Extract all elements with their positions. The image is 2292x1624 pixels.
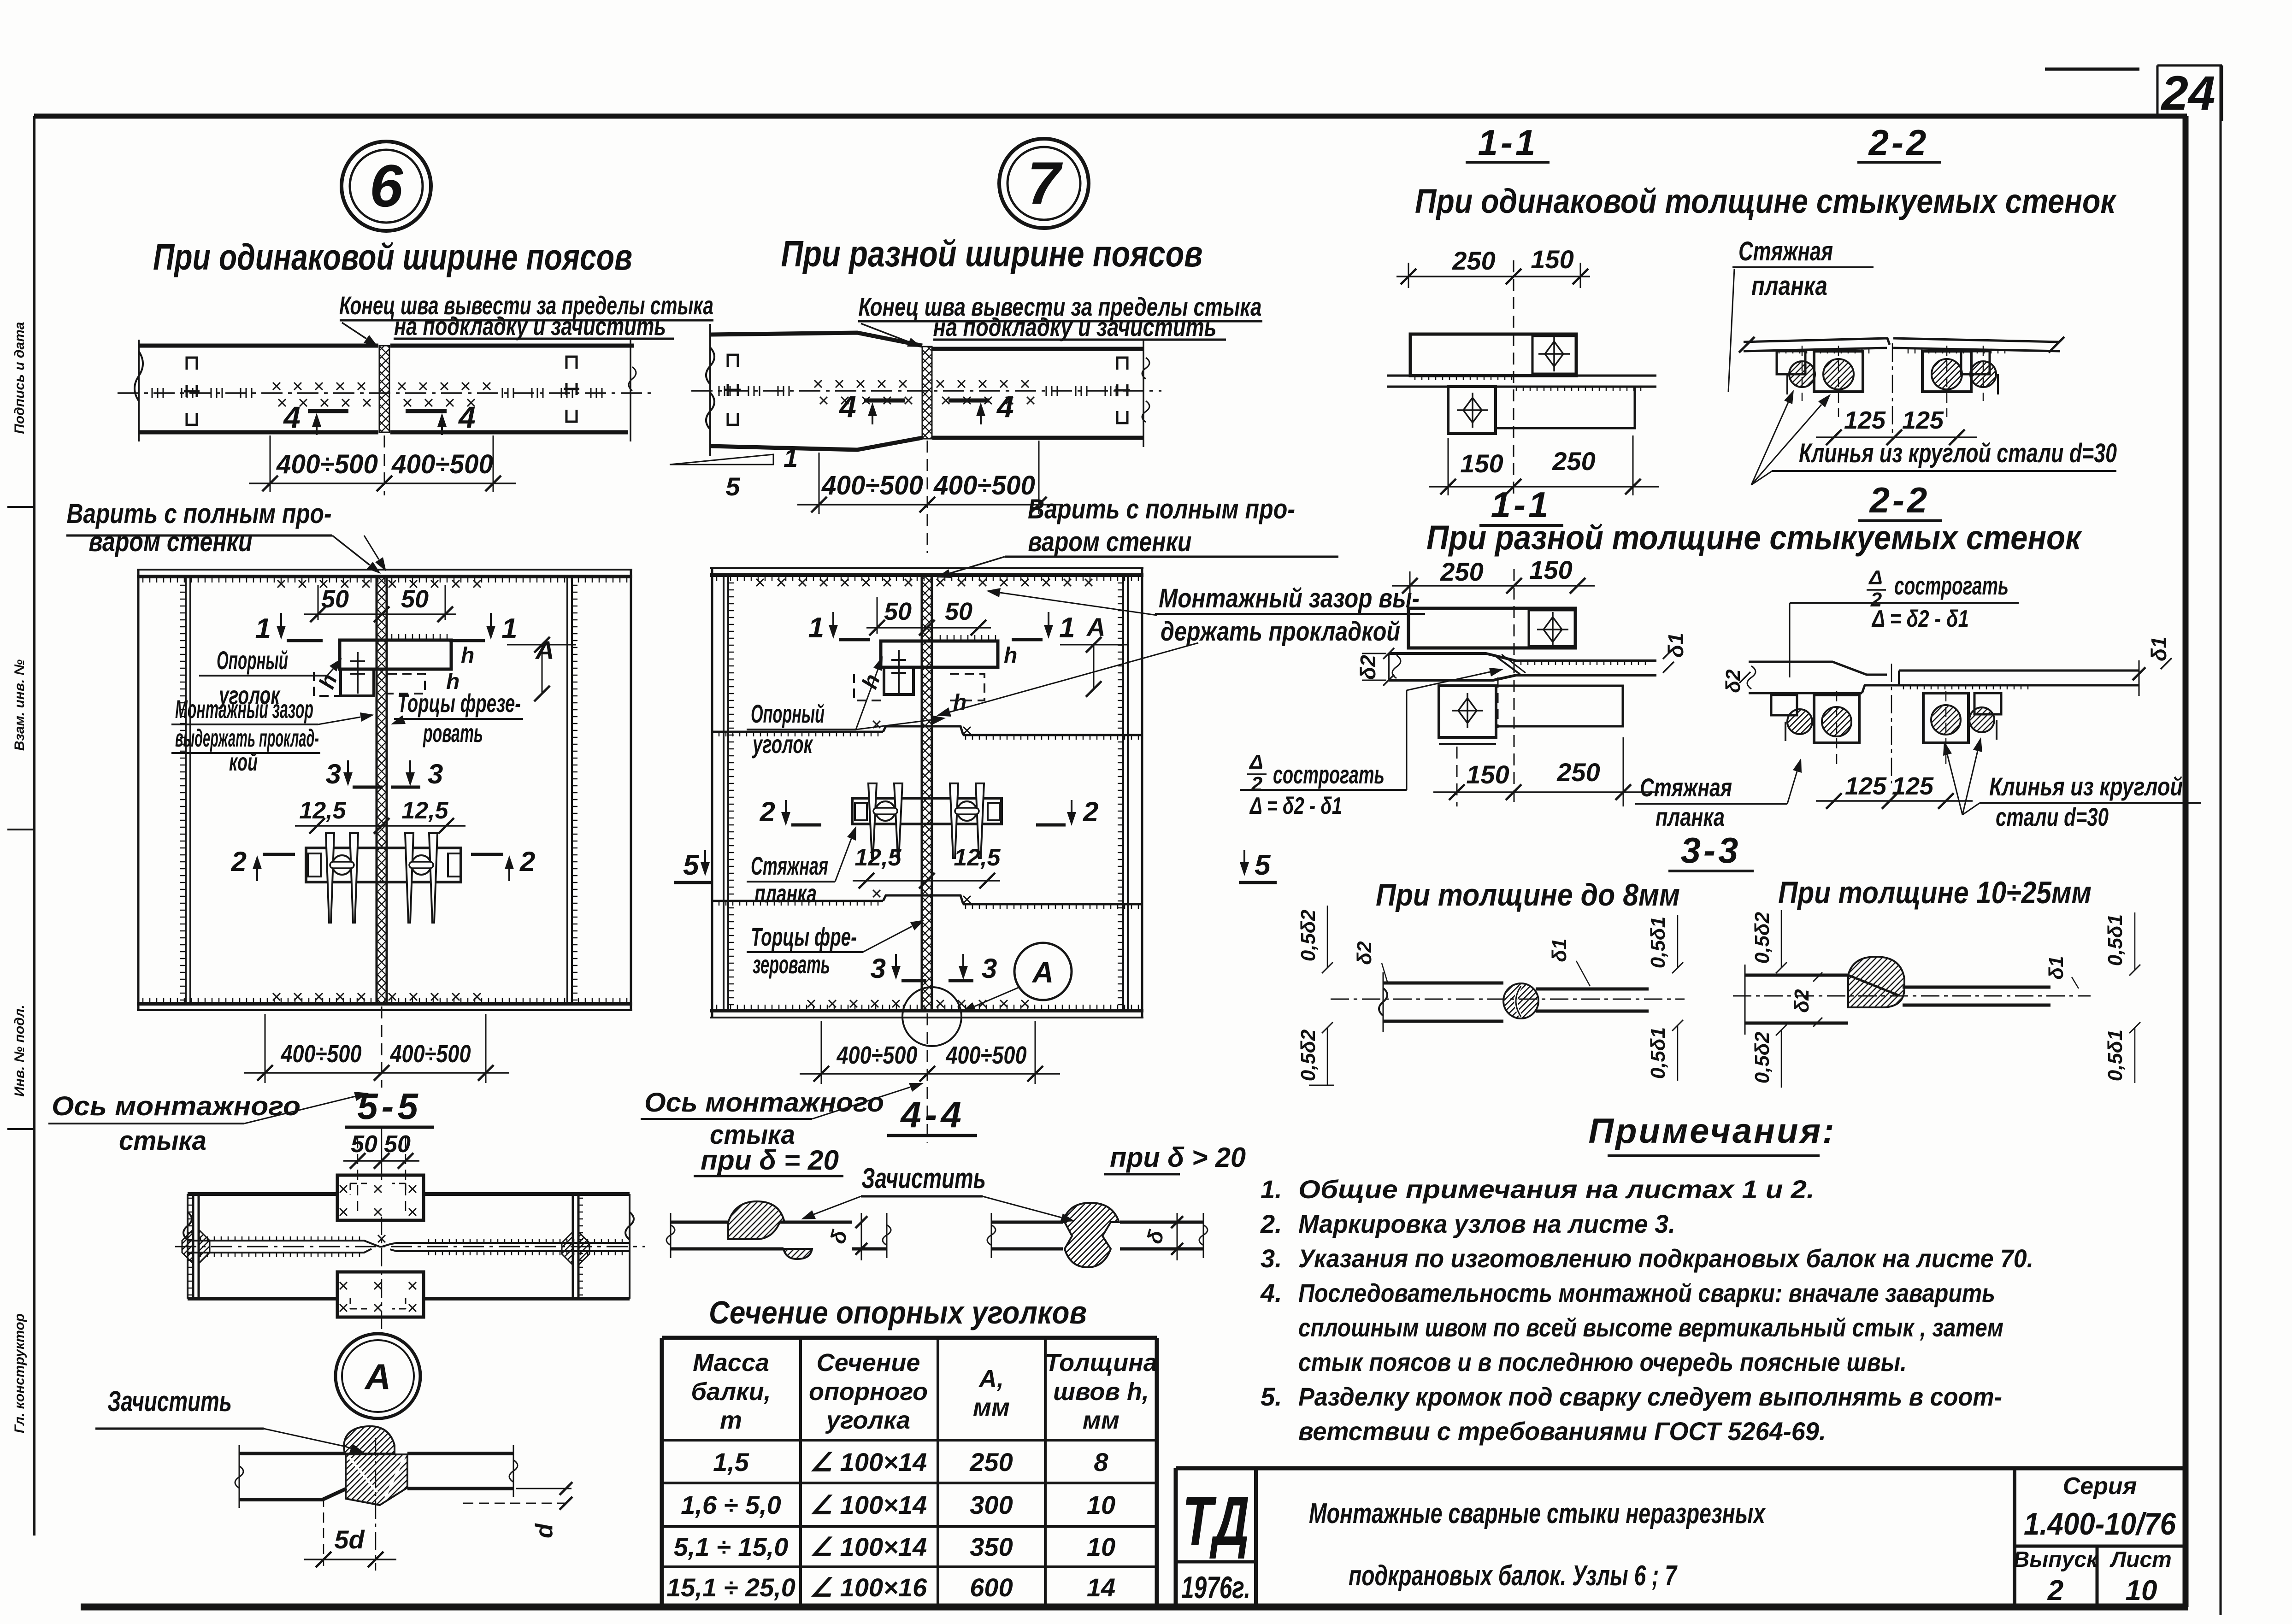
svg-text:12,5: 12,5 [954, 844, 1001, 871]
svg-text:держать прокладкой: держать прокладкой [1161, 617, 1400, 647]
svg-text:4: 4 [996, 389, 1014, 424]
svg-text:0,5δ2: 0,5δ2 [1297, 1029, 1320, 1081]
svg-text:Торцы фре-: Торцы фре- [751, 922, 857, 951]
svg-text:3: 3 [871, 953, 886, 984]
3-3 left drawing [1383, 982, 1503, 985]
svg-text:250: 250 [969, 1447, 1013, 1477]
node 7 detail circle A [902, 987, 961, 1046]
svg-text:А,: А, [978, 1365, 1004, 1393]
svg-text:Стяжная: Стяжная [1738, 236, 1833, 266]
svg-text:250: 250 [1440, 557, 1483, 586]
svg-text:1: 1 [1059, 612, 1075, 644]
svg-text:сострогать: сострогать [1273, 760, 1385, 789]
svg-text:400÷500: 400÷500 [391, 449, 493, 479]
5-5 stiffeners [192, 1194, 194, 1299]
svg-text:h: h [461, 643, 474, 668]
svg-text:А: А [1031, 956, 1054, 989]
svg-text:1976г.: 1976г. [1181, 1570, 1250, 1605]
svg-text:10: 10 [1087, 1490, 1115, 1519]
svg-text:δ2: δ2 [1356, 655, 1380, 680]
node 6 beam top view [139, 344, 378, 348]
svg-text:∠ 100×14: ∠ 100×14 [810, 1490, 927, 1519]
node 7 marker circle [999, 139, 1089, 228]
5-5 bottom splice plate [337, 1272, 424, 1317]
svg-text:При толщине 10÷25мм: При толщине 10÷25мм [1778, 875, 2092, 910]
svg-text:Указания по изготовлению подкр: Указания по изготовлению подкрановых бал… [1298, 1244, 2033, 1273]
svg-text:Разделку кромок под сварку сле: Разделку кромок под сварку следует выпол… [1298, 1382, 2002, 1411]
sect mark 5 right [1243, 850, 1245, 862]
node 6 weld flags 4 [308, 409, 348, 413]
svg-text:1.400-10/76: 1.400-10/76 [2024, 1506, 2176, 1542]
svg-text:кой: кой [229, 748, 258, 776]
3-3 right drawing [1745, 974, 1848, 977]
svg-text:5: 5 [1255, 849, 1271, 881]
svg-text:планка: планка [1751, 271, 1827, 301]
svg-text:δ1: δ1 [2147, 636, 2171, 661]
svg-text:Δ = δ2 - δ1: Δ = δ2 - δ1 [1871, 606, 1969, 632]
svg-text:на подкладку и зачистить: на подкладку и зачистить [933, 312, 1217, 341]
svg-text:∠ 100×14: ∠ 100×14 [810, 1447, 927, 1477]
node 6 elevation panel [137, 569, 632, 571]
svg-text:600: 600 [970, 1573, 1013, 1602]
node 7 right stiffener [1122, 575, 1124, 1011]
svg-text:δ2: δ2 [1791, 989, 1813, 1013]
svg-text:10: 10 [1087, 1532, 1115, 1561]
node 7 tie plate [852, 798, 1002, 824]
svg-text:Монтажный зазор: Монтажный зазор [175, 694, 313, 724]
svg-text:При одинаковой ширине поясов: При одинаковой ширине поясов [153, 236, 632, 277]
page frame [33, 116, 35, 1536]
node 6 weld joint strip [379, 346, 389, 432]
svg-text:1-1: 1-1 [1478, 122, 1538, 163]
svg-text:подкрановых балок. Узлы 6 ; 7: подкрановых балок. Узлы 6 ; 7 [1349, 1560, 1678, 1592]
svg-text:Клинья из круглой стали d=30: Клинья из круглой стали d=30 [1799, 438, 2117, 468]
5-5 top splice plate [337, 1175, 424, 1220]
svg-text:варом стенки: варом стенки [89, 526, 253, 557]
svg-text:300: 300 [970, 1490, 1013, 1519]
svg-text:50: 50 [321, 585, 349, 613]
svg-text:мм: мм [1083, 1406, 1119, 1434]
svg-text:5: 5 [725, 472, 740, 501]
sect 2-2 same clamps and wedges [1777, 351, 1805, 374]
svg-text:150: 150 [1466, 760, 1509, 789]
svg-text:2: 2 [231, 846, 247, 877]
svg-text:Монтажные сварные стыки неразр: Монтажные сварные стыки неразрезных [1309, 1498, 1766, 1530]
svg-text:δ2: δ2 [1353, 941, 1376, 965]
svg-text:400÷500: 400÷500 [837, 1041, 918, 1069]
svg-text:т: т [720, 1406, 742, 1434]
svg-text:1,5: 1,5 [713, 1447, 749, 1477]
svg-text:планка: планка [754, 879, 817, 908]
svg-text:12,5: 12,5 [854, 844, 901, 871]
svg-text:Варить с полным про-: Варить с полным про- [1028, 494, 1295, 524]
svg-text:При толщине до 8мм: При толщине до 8мм [1376, 877, 1680, 912]
svg-text:2: 2 [1251, 773, 1263, 795]
svg-text:стыка: стыка [119, 1126, 206, 1156]
table frame [660, 1338, 664, 1607]
node 7 elevation joint [921, 575, 923, 1011]
node 6 centerline [118, 392, 654, 394]
svg-text:∠ 100×16: ∠ 100×16 [810, 1573, 927, 1602]
svg-text:8: 8 [1094, 1447, 1108, 1477]
svg-text:3: 3 [428, 759, 443, 789]
svg-text:Δ = δ2 - δ1: Δ = δ2 - δ1 [1249, 793, 1342, 819]
node 7 support angle [881, 641, 998, 667]
svg-text:50: 50 [945, 598, 972, 625]
node 6 tie plate [306, 848, 461, 882]
svg-text:d: d [531, 1523, 558, 1538]
node 7 bottom dim 400-500 [821, 1021, 822, 1084]
sect 2-2 diff drawing [1749, 662, 1887, 675]
node 6 support angle [340, 640, 451, 669]
4-4 right weld drawing [991, 1221, 1063, 1224]
svg-text:При разной ширине поясов: При разной ширине поясов [781, 233, 1203, 274]
svg-text:балки,: балки, [691, 1378, 771, 1406]
svg-text:Примечания:: Примечания: [1588, 1112, 1836, 1151]
svg-text:10: 10 [2126, 1575, 2157, 1606]
svg-text:1: 1 [808, 612, 824, 644]
svg-text:при δ = 20: при δ = 20 [701, 1145, 839, 1176]
svg-text:∠ 100×14: ∠ 100×14 [810, 1532, 927, 1561]
svg-text:Маркировка узлов на листе 3.: Маркировка узлов на листе 3. [1298, 1209, 1675, 1238]
svg-text:швов h,: швов h, [1053, 1378, 1149, 1406]
svg-text:5d: 5d [334, 1525, 365, 1554]
node 7 stitch symbols [725, 355, 741, 425]
node 7 weld flags 4 [864, 399, 905, 403]
svg-text:15,1 ÷ 25,0: 15,1 ÷ 25,0 [666, 1573, 795, 1602]
node 7 horizontal seam lower [712, 900, 883, 902]
svg-text:125: 125 [1845, 772, 1887, 800]
svg-text:зеровать: зеровать [753, 950, 830, 979]
node 7 beam top view tapered [710, 333, 922, 346]
svg-text:При разной толщине стыкуемых с: При разной толщине стыкуемых стенок [1426, 518, 2082, 557]
svg-text:Ось монтажного: Ось монтажного [644, 1088, 884, 1118]
svg-text:400÷500: 400÷500 [933, 471, 1035, 500]
sect 1-1 diff drawing [1408, 608, 1575, 648]
svg-text:5-5: 5-5 [357, 1086, 422, 1127]
svg-text:стали d=30: стали d=30 [1996, 802, 2109, 831]
svg-text:400÷500: 400÷500 [946, 1041, 1027, 1069]
svg-text:Сечение: Сечение [817, 1349, 920, 1377]
svg-text:50: 50 [884, 598, 912, 625]
svg-text:0,5δ2: 0,5δ2 [1751, 912, 1774, 964]
node 6 stitch symbols [184, 358, 200, 425]
sect 2-2 diff clamps [1771, 695, 1797, 715]
node 7 centerline [691, 390, 1161, 392]
svg-text:Гл. конструктор: Гл. конструктор [12, 1313, 27, 1433]
svg-text:Опорный: Опорный [217, 646, 288, 675]
svg-text:Опорный: Опорный [751, 699, 825, 728]
svg-text:2: 2 [760, 796, 775, 827]
svg-text:0,5δ1: 0,5δ1 [1647, 917, 1669, 969]
svg-text:400÷500: 400÷500 [276, 449, 378, 479]
svg-text:1,6 ÷ 5,0: 1,6 ÷ 5,0 [681, 1490, 781, 1519]
node 7 slope triangle 1:5 [670, 454, 773, 465]
5-5 breaks and axis [183, 1212, 192, 1240]
svg-text:Δ: Δ [1249, 751, 1263, 773]
svg-text:4: 4 [283, 400, 300, 434]
svg-text:400÷500: 400÷500 [821, 471, 923, 500]
node 6 bottom dim 400-500 [265, 1014, 266, 1083]
5-5 web strip [188, 1241, 381, 1247]
svg-text:δ2: δ2 [1722, 669, 1744, 693]
svg-text:1: 1 [501, 613, 517, 645]
svg-text:350: 350 [970, 1532, 1013, 1561]
svg-text:2-2: 2-2 [1869, 480, 1930, 520]
svg-text:0,5δ2: 0,5δ2 [1297, 909, 1320, 961]
svg-text:Серия: Серия [2063, 1473, 2137, 1500]
svg-text:6: 6 [370, 152, 403, 219]
svg-text:Зачистить: Зачистить [107, 1386, 232, 1418]
svg-text:Масса: Масса [693, 1349, 769, 1377]
page number box 24 [2156, 65, 2159, 118]
node 7 left stiffener [723, 575, 725, 1011]
sect 2-2 same drawing flange [1744, 338, 1890, 345]
svg-text:250: 250 [1452, 246, 1495, 275]
svg-text:δ1: δ1 [1548, 938, 1571, 962]
svg-text:4-4: 4-4 [900, 1094, 965, 1135]
svg-text:Взам. инв. №: Взам. инв. № [12, 659, 27, 751]
svg-text:1: 1 [255, 613, 271, 645]
svg-text:сострогать: сострогать [1894, 571, 2009, 600]
svg-text:выдержать проклад-: выдержать проклад- [175, 724, 319, 752]
svg-text:Выпуск: Выпуск [2014, 1548, 2099, 1572]
svg-text:уголка: уголка [825, 1406, 910, 1434]
svg-text:24: 24 [2161, 66, 2215, 120]
svg-text:Подпись и дата: Подпись и дата [12, 322, 27, 434]
d dimension right [516, 1488, 572, 1489]
4-4 left weld drawing [671, 1221, 728, 1224]
svg-text:сплошным швом по всей высоте в: сплошным швом по всей высоте вертикальны… [1298, 1313, 2003, 1342]
svg-text:400÷500: 400÷500 [390, 1040, 471, 1068]
svg-text:0,5δ1: 0,5δ1 [1647, 1027, 1669, 1079]
svg-text:Общие примечания на листах 1 и: Общие примечания на листах 1 и 2. [1298, 1175, 1815, 1204]
svg-text:14: 14 [1087, 1573, 1115, 1602]
svg-text:1: 1 [784, 443, 798, 472]
5d dimension [323, 1497, 324, 1566]
title block frame [1176, 1466, 2186, 1471]
svg-text:Клинья из круглой: Клинья из круглой [1989, 772, 2183, 801]
svg-text:0,5δ1: 0,5δ1 [2104, 914, 2127, 966]
svg-text:При одинаковой толщине стыкуем: При одинаковой толщине стыкуемых стенок [1415, 182, 2117, 220]
svg-text:Толщина: Толщина [1045, 1349, 1157, 1377]
svg-text:уголок: уголок [752, 730, 813, 759]
svg-text:Зачистить: Зачистить [861, 1163, 986, 1194]
svg-text:Сечение опорных уголков: Сечение опорных уголков [709, 1294, 1087, 1330]
svg-text:1.: 1. [1261, 1175, 1282, 1204]
svg-text:Стяжная: Стяжная [1640, 773, 1732, 802]
svg-text:Инв. № подл.: Инв. № подл. [12, 1005, 27, 1096]
svg-text:5: 5 [683, 849, 700, 881]
svg-text:7: 7 [1027, 149, 1063, 217]
svg-text:ТД: ТД [1182, 1482, 1249, 1559]
svg-text:ветствии с требованиями ГОСТ 5: ветствии с требованиями ГОСТ 5264-69. [1298, 1417, 1826, 1446]
svg-text:4: 4 [838, 389, 856, 424]
svg-text:Ось монтажного: Ось монтажного [52, 1091, 300, 1121]
svg-text:2: 2 [519, 846, 535, 877]
node 6 dimension 400-500 [270, 435, 271, 492]
svg-text:Стяжная: Стяжная [751, 851, 828, 880]
node 7 weld joint strip [922, 347, 932, 439]
5-5 drawing [188, 1192, 337, 1196]
node 7 elevation panel [710, 567, 1143, 569]
svg-text:4.: 4. [1260, 1278, 1282, 1307]
node 6 elevation joint [376, 577, 378, 1004]
svg-text:Монтажный зазор вы-: Монтажный зазор вы- [1159, 583, 1420, 613]
svg-text:4: 4 [458, 400, 476, 434]
svg-text:5.: 5. [1261, 1382, 1282, 1411]
node 6 marker circle [342, 141, 431, 231]
svg-text:3.: 3. [1261, 1244, 1282, 1273]
svg-text:варом стенки: варом стенки [1028, 526, 1192, 557]
svg-text:12,5: 12,5 [401, 797, 448, 824]
svg-text:150: 150 [1529, 555, 1572, 584]
svg-text:0,5δ2: 0,5δ2 [1751, 1031, 1774, 1083]
svg-text:планка: планка [1656, 802, 1725, 831]
svg-text:3: 3 [326, 759, 341, 789]
A detail weld drawing [239, 1452, 345, 1455]
svg-text:при δ > 20: при δ > 20 [1110, 1142, 1246, 1173]
svg-text:стык поясов и в последнюю очер: стык поясов и в последнюю очередь поясны… [1298, 1347, 1907, 1377]
svg-text:А: А [364, 1356, 391, 1397]
svg-text:Лист: Лист [2109, 1548, 2172, 1572]
svg-text:Торцы фрезе-: Торцы фрезе- [397, 688, 521, 718]
node 7 dimension 400-500 [819, 453, 820, 514]
svg-text:0,5δ1: 0,5δ1 [2104, 1030, 2127, 1082]
svg-text:150: 150 [1531, 245, 1573, 274]
svg-text:2: 2 [2047, 1575, 2063, 1606]
svg-text:ровать: ровать [423, 718, 483, 747]
svg-text:δ1: δ1 [2045, 956, 2068, 979]
svg-text:h: h [1004, 643, 1017, 668]
svg-text:150: 150 [1460, 449, 1503, 478]
svg-text:3: 3 [982, 953, 997, 984]
svg-text:А: А [1086, 612, 1105, 641]
svg-text:50: 50 [401, 585, 429, 613]
svg-text:Последовательность монтажной с: Последовательность монтажной сварки: вна… [1298, 1278, 1995, 1307]
sect 1-1 same drawing [1410, 334, 1576, 376]
svg-text:мм: мм [973, 1394, 1010, 1421]
svg-text:на подкладку и зачистить: на подкладку и зачистить [394, 312, 666, 341]
svg-text:250: 250 [1556, 758, 1600, 787]
svg-text:125: 125 [1902, 406, 1944, 434]
node 7 horizontal seam upper [712, 731, 883, 733]
svg-text:Δ: Δ [1868, 566, 1883, 589]
svg-text:Варить с полным про-: Варить с полным про- [67, 498, 332, 529]
svg-text:2-2: 2-2 [1868, 122, 1929, 163]
svg-text:опорного: опорного [809, 1378, 928, 1406]
svg-text:125: 125 [1844, 406, 1886, 434]
svg-text:3-3: 3-3 [1681, 830, 1741, 871]
svg-text:125: 125 [1892, 772, 1934, 800]
A detail marker circle [336, 1334, 420, 1418]
node 6 right stiffener [566, 577, 568, 1004]
node 6 left stiffener [185, 577, 187, 1004]
svg-text:2: 2 [1083, 796, 1098, 827]
svg-text:5,1 ÷ 15,0: 5,1 ÷ 15,0 [674, 1532, 789, 1561]
svg-text:250: 250 [1552, 447, 1595, 476]
svg-text:400÷500: 400÷500 [281, 1040, 362, 1068]
svg-text:2.: 2. [1260, 1209, 1282, 1238]
